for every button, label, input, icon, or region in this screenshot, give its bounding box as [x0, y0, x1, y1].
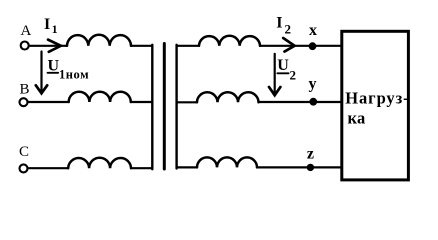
- wire coil b to load: [259, 101, 343, 103]
- svg-text:1: 1: [52, 22, 58, 36]
- voltage arrow U1nom: [36, 52, 47, 94]
- wire coil B to left bus: [131, 101, 153, 103]
- wire coil c to load: [257, 166, 342, 168]
- svg-text:A: A: [21, 23, 32, 39]
- primary winding B (coil): [69, 92, 131, 102]
- current arrow I2 head: [283, 38, 294, 52]
- secondary winding b (coil): [197, 92, 259, 102]
- svg-text:2: 2: [285, 22, 292, 37]
- svg-text:z: z: [307, 145, 314, 162]
- node z junction dot: [307, 164, 314, 171]
- svg-text:1ном: 1ном: [59, 67, 89, 81]
- wire right bus to coil c: [177, 166, 197, 168]
- underline of U1: [48, 72, 59, 74]
- voltage arrow U2: [269, 54, 280, 95]
- transformer core bar: [163, 44, 166, 170]
- svg-text:I: I: [276, 15, 282, 32]
- right bus (secondary common): [175, 45, 177, 169]
- secondary winding a (coil): [199, 36, 260, 46]
- wire coil C to left bus: [131, 167, 152, 169]
- label I2: [276, 15, 291, 37]
- wire C to coil: [28, 167, 68, 169]
- svg-text:U: U: [48, 57, 60, 74]
- svg-text:x: x: [309, 22, 317, 39]
- primary winding C (coil): [68, 158, 131, 168]
- load box: [342, 31, 409, 180]
- svg-text:Нагруз-: Нагруз-: [345, 88, 409, 107]
- terminal A: [21, 42, 29, 50]
- wire B to coil: [28, 101, 69, 103]
- terminal C: [20, 164, 28, 172]
- current arrow I1 head: [48, 40, 61, 52]
- terminal B: [20, 98, 28, 106]
- label U2: [277, 57, 296, 83]
- node y junction dot: [309, 98, 317, 106]
- primary winding A (coil): [67, 35, 131, 46]
- svg-text:2: 2: [290, 68, 297, 83]
- label I1: [44, 16, 58, 36]
- svg-text:U: U: [277, 57, 289, 74]
- svg-text:C: C: [19, 144, 29, 160]
- wire A to coil: [29, 45, 67, 47]
- svg-text:y: y: [309, 76, 317, 93]
- left bus (primary common): [151, 45, 153, 169]
- wire coil A to left bus: [131, 45, 152, 47]
- svg-text:B: B: [20, 81, 30, 97]
- wire coil a to load: [260, 45, 342, 47]
- wire right bus to coil b: [177, 101, 197, 103]
- underline of U2: [277, 72, 288, 74]
- svg-text:I: I: [44, 16, 50, 33]
- node x junction dot: [309, 42, 317, 50]
- wire right bus to coil a: [177, 45, 199, 47]
- secondary winding c (coil): [197, 157, 257, 167]
- label U1nom: [48, 57, 90, 81]
- svg-text:ка: ка: [348, 109, 366, 128]
